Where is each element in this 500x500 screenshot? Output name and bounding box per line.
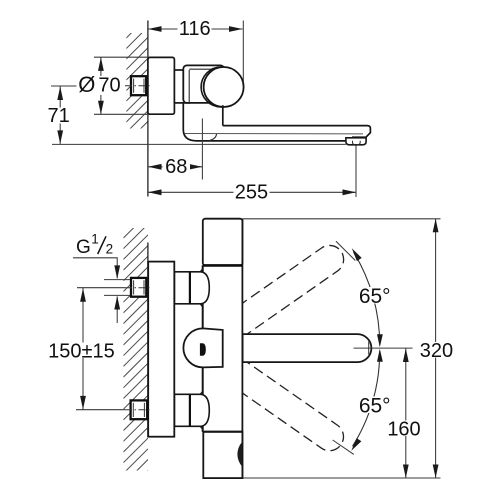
top cap bbox=[203, 219, 243, 266]
escutcheon (wall plate, side view) bbox=[148, 57, 175, 114]
svg-text:71: 71 bbox=[47, 105, 69, 127]
65 deg arc lower bbox=[353, 351, 380, 446]
cylinder crescent arc behind knob bbox=[201, 67, 241, 107]
dim 320/160 extension bottom bbox=[243, 477, 441, 479]
dashed spout down 65 deg bbox=[225, 358, 349, 456]
svg-text:150±15: 150±15 bbox=[48, 341, 115, 363]
svg-text:65°: 65° bbox=[359, 285, 391, 308]
bell union top bbox=[174, 272, 209, 304]
pipe union square behind wall bbox=[131, 76, 146, 95]
mounting plate (front view) bbox=[148, 262, 174, 437]
temperature knob crescent bbox=[237, 442, 242, 467]
arrows 71 bbox=[57, 87, 63, 101]
control knob (big circle, side view) bbox=[204, 67, 244, 107]
dim dia70 line bbox=[100, 57, 102, 114]
dim 255 line bbox=[148, 191, 356, 193]
dashed spout up 65 deg bbox=[225, 240, 349, 338]
inlet union square bottom bbox=[131, 400, 148, 419]
inlet centerline dashes over squares bbox=[125, 287, 152, 289]
wall hatching (front view) bbox=[123, 213, 148, 494]
dim 150+-15 line bbox=[82, 288, 84, 410]
65 ext line upper bbox=[336, 241, 355, 260]
ext line right of 255 bbox=[355, 146, 357, 198]
svg-text:255: 255 bbox=[235, 181, 268, 203]
solid spout (front view) bbox=[243, 334, 372, 362]
65 ext line lower bbox=[333, 440, 354, 454]
arrows 320 bbox=[433, 219, 439, 233]
bell union bottom bbox=[174, 394, 209, 426]
ext line right of 116 bbox=[242, 21, 244, 83]
dim 320 extension top bbox=[243, 218, 441, 220]
dashed swung spout positions bbox=[225, 240, 349, 456]
svg-text:160: 160 bbox=[387, 419, 420, 441]
spout pivot centerline / 68 extension bbox=[201, 119, 203, 180]
label 160 bbox=[387, 421, 422, 437]
bottom reference line (spout outlet level) bbox=[52, 143, 346, 145]
inlet centerline top bbox=[77, 287, 125, 289]
spout base cup outline and bottom line bbox=[183, 103, 347, 141]
cup right side small arc bbox=[209, 134, 217, 141]
cap joint bold lines bbox=[203, 264, 243, 267]
svg-text:G: G bbox=[76, 237, 91, 258]
faucet body column (front view) bbox=[203, 219, 243, 478]
arrows 65deg arcs bbox=[377, 334, 383, 347]
71 top reference stub bbox=[51, 85, 77, 87]
dim 116 line bbox=[148, 28, 243, 30]
centerline through union (dash-dot) bbox=[125, 85, 152, 87]
inner cap line of body bbox=[189, 68, 215, 70]
svg-text:2: 2 bbox=[106, 242, 114, 257]
dim 68 line bbox=[148, 166, 202, 168]
svg-text:1: 1 bbox=[91, 232, 99, 247]
label 320 bbox=[418, 342, 454, 358]
arrows G1/2 bbox=[114, 265, 120, 279]
svg-text:70: 70 bbox=[98, 75, 120, 97]
label 65deg lower bbox=[357, 397, 392, 414]
arrows 150+-15 bbox=[80, 288, 86, 302]
svg-text:Ø: Ø bbox=[78, 72, 95, 97]
65 deg arc upper bbox=[354, 252, 380, 345]
arrows 116 bbox=[148, 26, 162, 32]
body left edge bbox=[202, 265, 204, 432]
svg-text:68: 68 bbox=[165, 156, 187, 178]
dim 71 line bbox=[59, 86, 61, 144]
spout pivot element (D shape) bbox=[183, 328, 222, 367]
svg-text:320: 320 bbox=[420, 340, 453, 362]
valve body (side view) bbox=[183, 65, 224, 103]
inlet union square top bbox=[131, 278, 146, 297]
thread extension lines G1/2 bbox=[104, 279, 131, 281]
svg-text:65°: 65° bbox=[359, 394, 391, 417]
label 150+-15 bbox=[48, 343, 116, 359]
arrows dia70 bbox=[98, 57, 104, 71]
vertical edge below knob bbox=[222, 105, 224, 125]
inlet centerline bottom bbox=[76, 409, 125, 411]
neck between escutcheon and body bbox=[174, 70, 189, 103]
dim 320 line bbox=[435, 219, 437, 478]
text labels top view bbox=[178, 22, 212, 37]
arrows 68 bbox=[148, 164, 162, 170]
ext lines for dia70 bbox=[94, 56, 149, 58]
arrows 255 bbox=[148, 189, 162, 195]
wall hatching (top view) bbox=[126, 16, 148, 153]
arrows 160 bbox=[403, 349, 409, 363]
dim 160 line bbox=[405, 348, 407, 478]
body right edge bbox=[241, 219, 243, 478]
wall line (front view) bbox=[147, 243, 149, 438]
spout end centerline bbox=[354, 347, 413, 349]
spout highlight line bbox=[185, 133, 364, 135]
sensor slot (dark) bbox=[200, 343, 206, 356]
label 65deg upper bbox=[357, 287, 392, 304]
spout arm top edge and tip bbox=[223, 126, 371, 138]
wall line (top view), also left extension for 116/68/255 bbox=[147, 21, 149, 197]
bottom cap bbox=[203, 432, 242, 478]
G1/2 leader bbox=[73, 258, 117, 279]
aerator at spout tip bbox=[346, 138, 366, 145]
svg-text:116: 116 bbox=[179, 18, 211, 40]
